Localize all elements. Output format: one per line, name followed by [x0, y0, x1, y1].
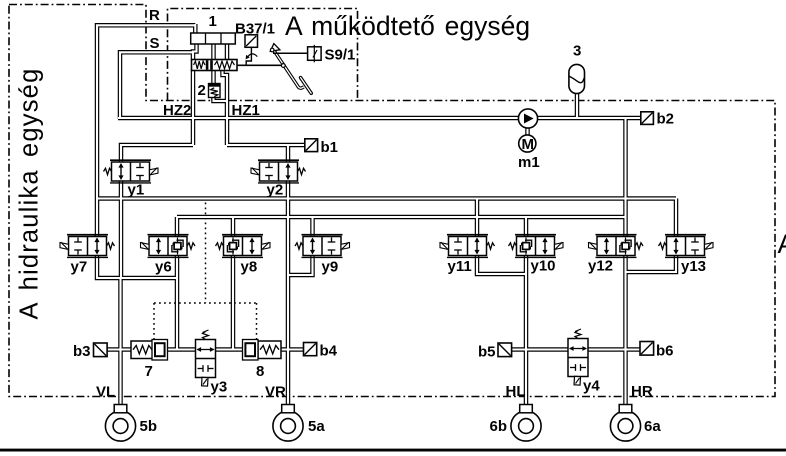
pedal pivot circle top [270, 48, 274, 52]
svg-text:HR: HR [631, 383, 653, 400]
svg-text:y2: y2 [267, 182, 284, 199]
svg-text:y11: y11 [448, 258, 472, 275]
wire y10 top stub [524, 217, 529, 237]
svg-text:HL: HL [506, 383, 526, 400]
wire main pump suction line [118, 116, 519, 121]
svg-text:m1: m1 [518, 154, 540, 171]
svg-text:A hidraulika egység: A hidraulika egység [16, 68, 44, 320]
svg-text:VL: VL [96, 384, 115, 401]
svg-text:A: A [778, 229, 786, 259]
svg-text:y13: y13 [681, 258, 706, 275]
pressure limiter 7 [131, 340, 168, 361]
master cylinder (tandem) [192, 60, 238, 71]
wheel-speed sensor 5a [273, 405, 303, 442]
dash-dot frame: A mukodteto egyseg box [168, 9, 358, 101]
wire reservoir-cylinder middle port [211, 43, 216, 61]
valve y9 [295, 235, 350, 258]
hydraulic pipes (white cores) [97, 24, 676, 406]
svg-text:S: S [150, 35, 160, 52]
wire y6 bottom down to brake line [175, 254, 180, 350]
pressure sensor b4 [304, 343, 317, 356]
bottom page rule [0, 449, 786, 452]
svg-text:S9/1: S9/1 [325, 47, 356, 64]
pressure sensor b2 [641, 112, 654, 125]
wire y13 bottom lateral to HR [626, 254, 677, 272]
wire S suction line from reservoir to pump line [120, 52, 194, 119]
pedal sensor B37/1 [245, 35, 258, 65]
brake pedal lever [273, 49, 311, 93]
pressure sensor b5 [498, 343, 512, 357]
valve y2 [251, 160, 306, 183]
wire bus 1 right corner into y13 [674, 199, 679, 238]
svg-text:y6: y6 [155, 259, 172, 276]
accumulator 3 [569, 64, 585, 93]
svg-text:R: R [149, 7, 160, 24]
wire master cylinder right port to HZ1 [223, 70, 228, 146]
wire bus 2 left corner into y6 [175, 217, 180, 237]
wire y8 top stub [231, 217, 236, 237]
switch S9/1 [308, 45, 322, 63]
svg-text:b4: b4 [320, 343, 338, 360]
wire pressure line down to y12 [623, 118, 628, 237]
svg-text:y3: y3 [211, 379, 228, 396]
svg-text:VR: VR [265, 384, 286, 401]
svg-text:y8: y8 [241, 259, 258, 276]
wire y2 down to wheel VR [286, 180, 291, 407]
wire y2 top stub [286, 145, 291, 163]
valve y1 [104, 160, 159, 183]
svg-text:HZ1: HZ1 [232, 102, 260, 119]
wire HZ2 line from master cylinder [191, 70, 196, 146]
link to switch S9/1 [273, 52, 308, 54]
pressure sensor b3 [94, 343, 108, 357]
valve y6 [141, 235, 196, 258]
svg-text:6b: 6b [490, 418, 508, 435]
wheel-speed sensor 5b [105, 405, 135, 442]
wire VL line [118, 278, 123, 406]
pilot dotted line from bus1 to valves 7/8 [205, 198, 207, 304]
svg-text:b1: b1 [321, 139, 339, 156]
wire y11 bottom lateral to HL [477, 254, 526, 274]
svg-text:b3: b3 [73, 343, 91, 360]
wire y7 bottom lateral [97, 254, 177, 278]
hydraulic pipes (outer strokes) [97, 24, 676, 406]
wire R return line from reservoir [97, 25, 195, 237]
wire y11 top stub from bus1 [475, 199, 480, 238]
wire bus 2 pressure rail [177, 215, 626, 220]
wheel-speed sensor 6a [610, 405, 640, 442]
svg-text:1: 1 [209, 13, 217, 30]
svg-text:y4: y4 [583, 378, 600, 395]
svg-text:2: 2 [198, 82, 206, 99]
pressure limiter 8 [243, 340, 282, 361]
pivot joint on pedal lever [281, 64, 285, 68]
svg-text:b5: b5 [478, 344, 496, 361]
wire reservoir-cylinder right port [225, 43, 230, 61]
svg-text:5a: 5a [308, 418, 325, 435]
svg-text:y1: y1 [128, 182, 145, 199]
valve y4 [568, 329, 588, 385]
valve y3 [196, 330, 216, 386]
wire front brake line b3 to b4 [106, 347, 304, 352]
svg-text:HZ2: HZ2 [163, 102, 191, 119]
svg-text:B37/1: B37/1 [235, 21, 275, 38]
wire reservoir top stub R [193, 24, 198, 34]
wire accumulator stem [575, 91, 580, 118]
svg-text:y10: y10 [531, 258, 556, 275]
svg-text:7: 7 [145, 363, 153, 380]
wire y9 bottom lateral to VR [288, 254, 313, 275]
damper 2 [209, 84, 221, 98]
svg-text:y12: y12 [588, 258, 613, 275]
pilot dotted stub to valve 7 [153, 303, 155, 340]
svg-text:5b: 5b [140, 418, 158, 435]
motor m1 [519, 135, 536, 153]
svg-text:A működtető egység: A működtető egység [285, 11, 530, 41]
wire damper 2 feed [211, 70, 216, 85]
wheel-speed sensor 6b [511, 405, 541, 442]
wire y8 bottom down to brake line [231, 254, 236, 350]
wire y9 top stub [310, 217, 315, 237]
reservoir 1 [191, 33, 236, 44]
valve y10 [509, 235, 564, 258]
valve y7 [60, 235, 115, 258]
valve y13 [659, 235, 714, 258]
pressure sensor b6 [640, 342, 654, 356]
svg-text:8: 8 [256, 363, 264, 380]
svg-text:M: M [522, 136, 535, 153]
wire rear brake line b5 to b6 [511, 347, 640, 352]
valve y12 [589, 235, 644, 258]
svg-text:b6: b6 [656, 343, 674, 360]
wire HL line from y10 [524, 254, 529, 406]
push rod from master cylinder [237, 64, 282, 66]
pilot dotted stub to valve 8 [256, 303, 258, 340]
svg-text:y7: y7 [71, 259, 88, 276]
wire pump to motor link [525, 127, 530, 136]
valve y11 [440, 235, 495, 258]
pedal arrowhead [270, 44, 280, 52]
wire y1 down to wheel VL [119, 180, 124, 279]
svg-text:y9: y9 [322, 259, 339, 276]
svg-text:6a: 6a [644, 418, 661, 435]
svg-text:b2: b2 [657, 111, 675, 128]
svg-text:3: 3 [573, 43, 581, 60]
pressure sensor b1 [305, 139, 318, 152]
wire main pressure line pump to b2 [537, 116, 641, 121]
wire damper 2 outlet [214, 97, 227, 101]
wire bus 1 return rail [97, 196, 676, 201]
wire HZ2 lateral to y1 [121, 145, 193, 163]
pump [518, 109, 537, 128]
wire HZ1 lateral to b1 [227, 143, 305, 148]
wire HR line from y12 [623, 254, 628, 406]
valve y8 [216, 235, 271, 258]
wire reservoir-cylinder left port [193, 43, 197, 61]
